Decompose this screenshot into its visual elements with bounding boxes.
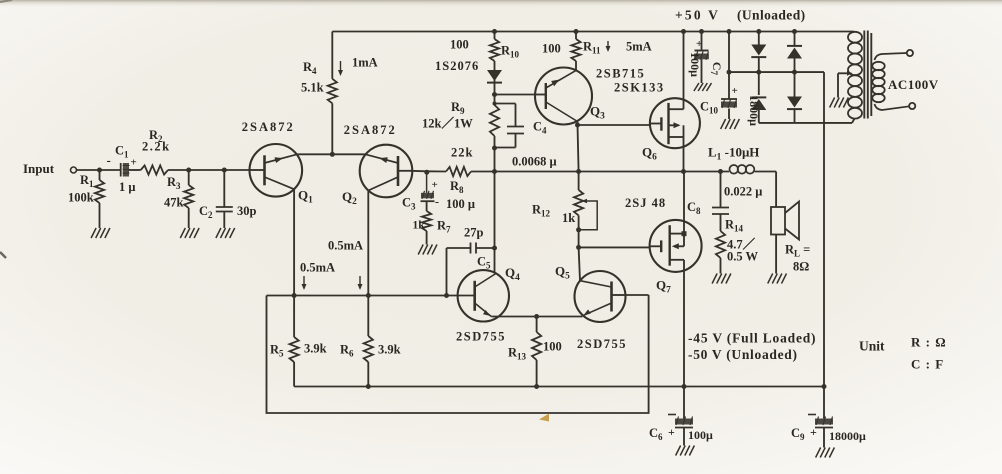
svg-text:2SB715: 2SB715: [596, 67, 645, 81]
svg-text:1k: 1k: [562, 211, 575, 225]
svg-text:5.1k: 5.1k: [301, 81, 324, 95]
svg-text:100: 100: [542, 42, 561, 56]
svg-text:1mA: 1mA: [352, 56, 378, 70]
svg-text:0.022 μ: 0.022 μ: [724, 185, 762, 199]
svg-text:+: +: [732, 85, 738, 97]
svg-text:2.2k: 2.2k: [142, 140, 171, 154]
svg-text:2SA872: 2SA872: [242, 120, 295, 134]
svg-text:C : F: C : F: [911, 357, 944, 372]
svg-text:1S2076: 1S2076: [435, 59, 479, 73]
svg-text:1800μ: 1800μ: [747, 95, 761, 126]
svg-text:22k: 22k: [451, 146, 473, 160]
svg-text:2SJ 48: 2SJ 48: [625, 196, 666, 210]
svg-text:100: 100: [543, 340, 562, 354]
svg-text:R : Ω: R : Ω: [911, 335, 947, 350]
svg-text:18000μ: 18000μ: [829, 429, 866, 443]
svg-text:+: +: [668, 425, 675, 439]
svg-text:-: -: [107, 153, 111, 168]
svg-text:+: +: [131, 157, 137, 169]
svg-text:100: 100: [450, 38, 469, 52]
svg-text:0.5mA: 0.5mA: [328, 239, 363, 253]
svg-text:2SD755: 2SD755: [456, 330, 506, 344]
svg-text:100μ: 100μ: [688, 428, 713, 442]
svg-text:-45 V (Full Loaded): -45 V (Full Loaded): [688, 331, 816, 346]
svg-text:-: -: [435, 195, 439, 209]
svg-text:Unit: Unit: [859, 339, 885, 354]
svg-text:+: +: [432, 179, 438, 191]
svg-text:+50 V: +50 V: [675, 8, 720, 23]
svg-text:0.5mA: 0.5mA: [300, 261, 335, 275]
svg-text:-50 V (Unloaded): -50 V (Unloaded): [688, 347, 798, 362]
svg-text:27p: 27p: [464, 226, 484, 240]
svg-text:0.5 W: 0.5 W: [727, 250, 759, 264]
svg-text:+: +: [810, 425, 817, 439]
svg-text:8Ω: 8Ω: [793, 260, 809, 274]
svg-text:2SA872: 2SA872: [344, 123, 397, 137]
svg-text:(Unloaded): (Unloaded): [737, 8, 806, 23]
svg-text:30p: 30p: [237, 204, 257, 218]
svg-text:AC100V: AC100V: [888, 77, 939, 92]
svg-text:3.9k: 3.9k: [378, 343, 401, 357]
svg-text:1k: 1k: [413, 220, 426, 232]
svg-text:2SD755: 2SD755: [577, 337, 627, 351]
svg-text:5mA: 5mA: [626, 40, 652, 54]
svg-text:2SK133: 2SK133: [614, 81, 665, 95]
svg-text:47k: 47k: [164, 196, 184, 210]
svg-text:3.9k: 3.9k: [304, 342, 327, 356]
svg-text:12k／1W: 12k／1W: [422, 116, 473, 131]
svg-text:0.0068 μ: 0.0068 μ: [512, 155, 557, 169]
svg-text:+: +: [696, 38, 702, 50]
svg-text:100 μ: 100 μ: [446, 197, 475, 211]
svg-text:Input: Input: [23, 161, 55, 176]
svg-text:1 μ: 1 μ: [119, 180, 135, 194]
svg-text:100k: 100k: [68, 191, 94, 205]
svg-text:100μ: 100μ: [688, 52, 702, 77]
